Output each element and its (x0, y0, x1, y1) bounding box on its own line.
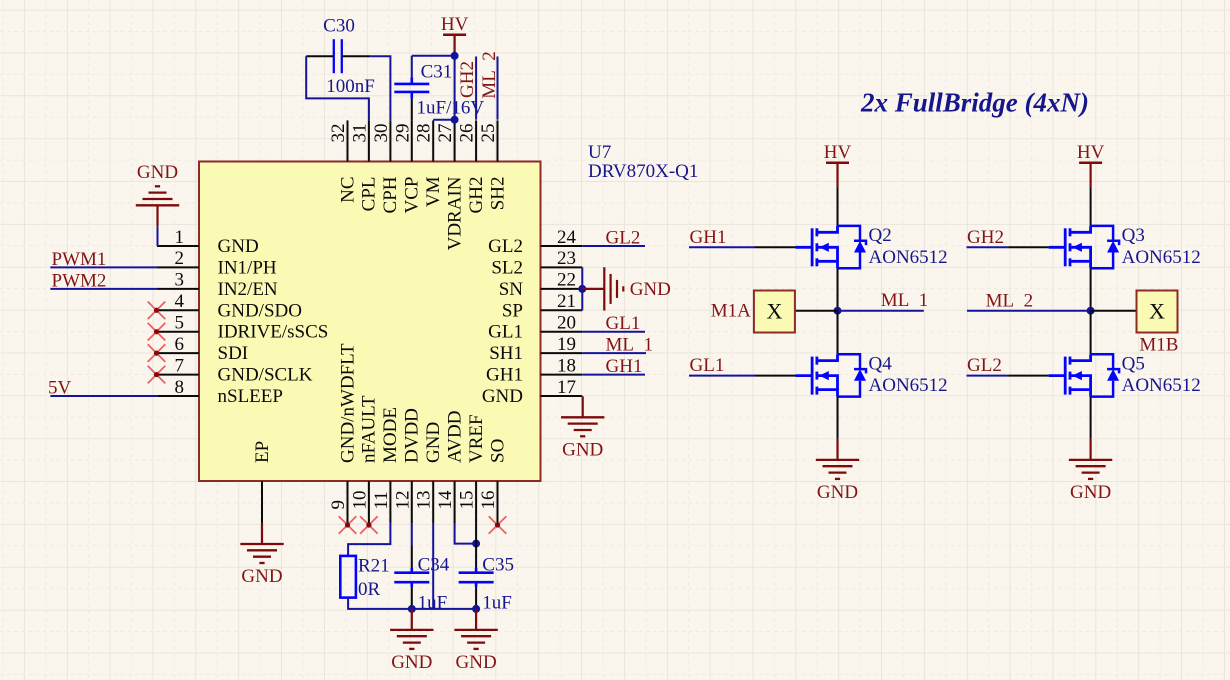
designator C31 (421, 61, 453, 82)
transistor Q4 AON6512 (796, 353, 948, 396)
value 1uF C34 (418, 593, 448, 614)
pin 5 IDRIVE/sSCS (157, 313, 328, 343)
svg-text:10: 10 (349, 491, 370, 510)
svg-text:3: 3 (175, 270, 185, 291)
svg-text:25: 25 (478, 124, 499, 143)
svg-text:VCP: VCP (402, 177, 423, 214)
svg-text:ML2: ML2 (986, 291, 1034, 312)
svg-text:VM: VM (423, 176, 444, 207)
pin 4 GND/SDO (157, 291, 302, 321)
svg-text:VREF: VREF (466, 414, 487, 463)
wire HV to Q3 drain (1090, 187, 1092, 226)
wire GH1 (582, 374, 645, 376)
svg-text:29: 29 (392, 124, 413, 143)
svg-text:SH2: SH2 (487, 177, 508, 211)
no-connect X pin 6 (148, 344, 166, 362)
svg-text:SP: SP (502, 300, 523, 321)
transistor Q5 AON6512 (1049, 353, 1201, 396)
svg-text:2x FullBridge (4xN): 2x FullBridge (4xN) (860, 88, 1089, 118)
svg-text:R21: R21 (358, 556, 390, 577)
wire VCP top horizontal (412, 55, 455, 57)
net label PWM1 (52, 249, 107, 270)
svg-text:U7: U7 (588, 142, 611, 163)
junction node ML_1 (834, 307, 842, 315)
wire node to Q5 drain (1090, 311, 1092, 355)
pin 6 SDI (157, 334, 248, 364)
junction C35-gnd (472, 605, 480, 613)
svg-text:IDRIVE/sSCS: IDRIVE/sSCS (218, 322, 329, 343)
svg-text:GND/SCLK: GND/SCLK (218, 365, 313, 386)
svg-text:7: 7 (175, 355, 185, 376)
pin 13 GND (414, 422, 444, 523)
pin 7 GND/SCLK (157, 355, 313, 385)
svg-text:nFAULT: nFAULT (359, 395, 380, 463)
net label ML_1 at pin 19 (606, 335, 654, 356)
ground GND at SN (582, 267, 671, 310)
pin 24 GL2 (488, 227, 582, 257)
junction node ML_2 (1087, 307, 1095, 315)
junction AVDD-VREF (472, 540, 480, 548)
svg-text:27: 27 (435, 124, 456, 143)
svg-text:Q3: Q3 (1122, 225, 1145, 246)
svg-text:GH2: GH2 (466, 177, 487, 214)
svg-text:AON6512: AON6512 (1122, 247, 1201, 268)
svg-text:GND: GND (1070, 482, 1111, 503)
svg-text:GND: GND (817, 482, 858, 503)
power HV bridge M1A (824, 142, 852, 187)
svg-text:GL1: GL1 (690, 355, 725, 376)
wire AVDD jog (455, 523, 477, 544)
svg-text:Q5: Q5 (1122, 353, 1145, 374)
svg-text:DVDD: DVDD (402, 408, 423, 463)
pin 12 DVDD (392, 408, 422, 523)
svg-text:1uF: 1uF (482, 593, 512, 614)
wire ML_1 (582, 352, 646, 354)
no-connect X pin 5 (148, 323, 166, 341)
svg-text:GL1: GL1 (488, 322, 523, 343)
capacitor C30 (306, 39, 370, 73)
resistor R21 (340, 556, 356, 598)
designator R21 (358, 556, 390, 577)
svg-text:GH1: GH1 (690, 227, 727, 248)
svg-text:GL1: GL1 (606, 313, 641, 334)
connector M1A X box (754, 291, 795, 333)
svg-text:20: 20 (557, 313, 576, 334)
svg-text:GL2: GL2 (967, 355, 1002, 376)
svg-text:9: 9 (328, 500, 349, 510)
wire Q3 source to node (1090, 268, 1092, 310)
net label GH1 (690, 227, 727, 248)
svg-text:MODE: MODE (380, 407, 401, 463)
wire Q2 source to node (837, 268, 839, 310)
svg-text:GND/nWDFLT: GND/nWDFLT (337, 343, 358, 463)
svg-text:16: 16 (478, 491, 499, 510)
svg-text:ML1: ML1 (881, 290, 929, 311)
wire Q4 source to ground (837, 397, 839, 439)
pin 20 GL1 (488, 313, 582, 343)
svg-text:SO: SO (487, 439, 508, 463)
svg-text:X: X (766, 299, 782, 324)
value 100nF (326, 76, 375, 97)
wire GH2 gate (967, 246, 1049, 248)
transistor Q2 AON6512 (796, 225, 948, 268)
value 1uF C35 (482, 593, 512, 614)
wire node to Q4 drain (837, 311, 839, 355)
pin 31 CPL (349, 120, 379, 211)
wire DVDD down (411, 523, 413, 546)
svg-text:1uF/16V: 1uF/16V (417, 97, 485, 118)
svg-text:GL2: GL2 (488, 236, 523, 257)
no-connect X pin 10 (360, 516, 378, 534)
svg-text:IN1/PH: IN1/PH (218, 257, 277, 278)
svg-text:X: X (1149, 299, 1165, 324)
svg-text:AVDD: AVDD (444, 411, 465, 463)
svg-text:GH2: GH2 (457, 61, 478, 98)
svg-text:4: 4 (175, 291, 185, 312)
wire R21 to ground rail (348, 598, 412, 609)
annotation title 2x FullBridge (4xN) (860, 88, 1089, 118)
svg-text:GND: GND (218, 236, 259, 257)
svg-text:GH2: GH2 (967, 227, 1004, 248)
pin 3 IN2/EN (157, 270, 278, 300)
svg-text:GL2: GL2 (606, 228, 641, 249)
svg-text:22: 22 (557, 270, 576, 291)
svg-text:19: 19 (557, 334, 576, 355)
svg-text:NC: NC (337, 177, 358, 203)
pin 22 SN (499, 270, 583, 300)
wire VREF down (475, 523, 477, 544)
svg-text:2: 2 (175, 248, 185, 269)
ground GND top-left (136, 162, 179, 226)
pin 8 nSLEEP (157, 377, 283, 407)
wire GH2 net (pin 26 up) (475, 57, 477, 120)
svg-text:ML2: ML2 (479, 51, 500, 99)
capacitor C35 (459, 544, 494, 609)
svg-text:SDI: SDI (218, 343, 249, 364)
svg-text:SH1: SH1 (489, 343, 523, 364)
svg-text:HV: HV (824, 142, 852, 163)
wire GH1 gate (689, 246, 796, 248)
svg-text:nSLEEP: nSLEEP (218, 386, 283, 407)
svg-text:12: 12 (392, 491, 413, 510)
transistor Q3 AON6512 (1049, 225, 1201, 268)
svg-text:CPH: CPH (380, 176, 401, 213)
net label GL1 (690, 355, 725, 376)
wire GL2 (582, 245, 645, 247)
wire GL1 gate (689, 375, 796, 377)
svg-text:5: 5 (175, 313, 185, 334)
wire C30 left to pin 31 CPL (306, 56, 369, 120)
pin 9 GND/nWDFLT (328, 343, 358, 523)
net label M1A (711, 301, 751, 322)
ground GND below EP (240, 523, 283, 587)
svg-text:EP: EP (252, 441, 273, 463)
wire HV to Q2 drain (837, 187, 839, 226)
net label PWM2 (52, 271, 107, 292)
svg-text:Q4: Q4 (869, 353, 893, 374)
svg-text:VDRAIN: VDRAIN (444, 176, 465, 250)
power HV at VDRAIN (441, 14, 469, 56)
pin 27 VDRAIN (435, 120, 465, 250)
wire Q5 source to ground (1090, 397, 1092, 439)
pin 17 GND (482, 377, 582, 407)
svg-text:1: 1 (175, 227, 185, 248)
svg-text:GND: GND (391, 652, 432, 673)
svg-text:100nF: 100nF (326, 76, 375, 97)
no-connect X pin 4 (148, 302, 166, 320)
svg-text:C31: C31 (421, 61, 453, 82)
wire GL2 gate (967, 375, 1049, 377)
svg-text:GND: GND (630, 279, 671, 300)
wire GL1 (582, 331, 645, 333)
svg-text:GND: GND (423, 422, 444, 463)
pin 2 IN1/PH (157, 248, 277, 278)
svg-text:CPL: CPL (359, 177, 380, 212)
wire PWM1 (50, 266, 158, 268)
svg-text:C35: C35 (482, 555, 514, 576)
wire node ML_1 (795, 310, 924, 312)
value 1uF/16V (417, 97, 485, 118)
pin 14 AVDD (435, 411, 465, 523)
svg-text:AON6512: AON6512 (1122, 375, 1201, 396)
wire MODE to R21 (348, 522, 390, 556)
junction SN node (578, 285, 586, 293)
wire VM jog (433, 119, 454, 121)
svg-text:GH1: GH1 (486, 365, 523, 386)
pin 21 SP (502, 291, 582, 321)
svg-text:SN: SN (499, 279, 524, 300)
capacitor C31 (394, 77, 429, 120)
value DRV870X-Q1 (588, 161, 698, 182)
IC U7 DRV870X-Q1 body (199, 162, 541, 482)
svg-text:24: 24 (557, 227, 577, 248)
connector M1B X box (1137, 291, 1178, 333)
svg-text:IN2/EN: IN2/EN (218, 279, 278, 300)
svg-text:GND: GND (562, 439, 603, 460)
wire HV down VDRAIN (454, 56, 456, 120)
net label GH1 at pin 18 (606, 356, 643, 377)
svg-text:Q2: Q2 (869, 225, 892, 246)
no-connect X pin 7 (148, 366, 166, 384)
svg-text:18: 18 (557, 355, 576, 376)
svg-text:GND: GND (482, 386, 523, 407)
svg-text:GND: GND (137, 162, 178, 183)
no-connect X pin 9 (339, 516, 357, 534)
net label GL1 (606, 313, 641, 334)
svg-text:DRV870X-Q1: DRV870X-Q1 (588, 161, 698, 182)
svg-text:GND: GND (456, 652, 497, 673)
capacitor C34 (394, 546, 429, 609)
pin 28 VM (414, 120, 444, 207)
net label GH2 (rotated) (457, 61, 478, 98)
pin 11 MODE (371, 407, 401, 523)
wire C30 right to pin 30 CPH (370, 56, 390, 120)
svg-text:0R: 0R (358, 579, 381, 600)
wire node ML_2 (967, 310, 1137, 312)
pin EP (252, 441, 273, 523)
svg-text:31: 31 (349, 124, 370, 143)
net label GL2 (606, 228, 641, 249)
net label ML_2 (rotated) (479, 51, 500, 99)
pin 1 GND (157, 227, 259, 257)
wire GND to pin 1 (158, 226, 167, 246)
ground GND at pin 17 (561, 396, 604, 460)
net label GH2 (967, 227, 1004, 248)
svg-text:30: 30 (371, 124, 392, 143)
svg-text:11: 11 (371, 491, 392, 509)
pin 15 VREF (457, 414, 487, 523)
svg-text:17: 17 (557, 377, 576, 398)
designator C35 (482, 555, 514, 576)
svg-text:8: 8 (175, 377, 185, 398)
net label 5V (48, 378, 72, 399)
designator C30 (323, 15, 355, 36)
svg-text:26: 26 (457, 124, 478, 143)
svg-text:14: 14 (435, 490, 456, 510)
wire ML_2 net (pin 25 up) (497, 57, 499, 120)
ground GND below C34 (390, 609, 433, 673)
pin 10 nFAULT (349, 395, 379, 523)
pin 23 SL2 (491, 248, 582, 278)
svg-text:M1B: M1B (1139, 335, 1178, 356)
svg-text:C30: C30 (323, 15, 355, 36)
wire ground rail (412, 608, 476, 610)
wire GND pin13 down (432, 523, 434, 609)
value 0R (358, 579, 381, 600)
svg-text:6: 6 (175, 334, 185, 355)
svg-text:AON6512: AON6512 (869, 247, 948, 268)
pin 25 SH2 (478, 120, 508, 210)
net label ML_1 (881, 290, 929, 311)
ground GND bridge M1A (816, 439, 859, 503)
designator C34 (418, 555, 450, 576)
net label GL2 (967, 355, 1002, 376)
ground GND bridge M1B (1069, 439, 1112, 503)
pin 19 SH1 (489, 334, 582, 364)
designator U7 (588, 142, 611, 163)
pin 18 GH1 (486, 355, 582, 385)
junction C34-gnd (408, 605, 416, 613)
svg-text:32: 32 (328, 124, 349, 143)
pin 29 VCP (392, 120, 422, 213)
svg-text:21: 21 (557, 291, 576, 312)
junction VDRAIN-VM (451, 116, 459, 124)
svg-text:HV: HV (441, 14, 469, 35)
svg-text:M1A: M1A (711, 301, 751, 322)
svg-text:15: 15 (457, 491, 478, 510)
net label M1B (1139, 335, 1178, 356)
pin 32 NC (328, 120, 358, 203)
svg-text:HV: HV (1077, 142, 1105, 163)
wire PWM2 (50, 288, 158, 290)
wire SL2-SN-SP bracket (581, 267, 583, 310)
svg-text:ML1: ML1 (606, 335, 654, 356)
wire VCP to C31 (411, 56, 413, 77)
svg-text:SL2: SL2 (491, 257, 523, 278)
svg-text:AON6512: AON6512 (869, 375, 948, 396)
no-connect X pin 16 (489, 516, 507, 534)
svg-text:GH1: GH1 (606, 356, 643, 377)
svg-text:13: 13 (414, 491, 435, 510)
power HV bridge M1B (1077, 142, 1105, 187)
svg-text:23: 23 (557, 248, 576, 269)
svg-text:GND: GND (241, 566, 282, 587)
svg-text:28: 28 (414, 124, 435, 143)
wire 5V (50, 395, 158, 397)
pin 30 CPH (371, 120, 401, 213)
pin 26 GH2 (457, 120, 487, 213)
net label ML_2 (986, 291, 1034, 312)
junction HV node (451, 52, 459, 60)
svg-text:GND/SDO: GND/SDO (218, 300, 302, 321)
ground GND below C35 (454, 609, 497, 673)
pin 16 SO (478, 439, 508, 523)
